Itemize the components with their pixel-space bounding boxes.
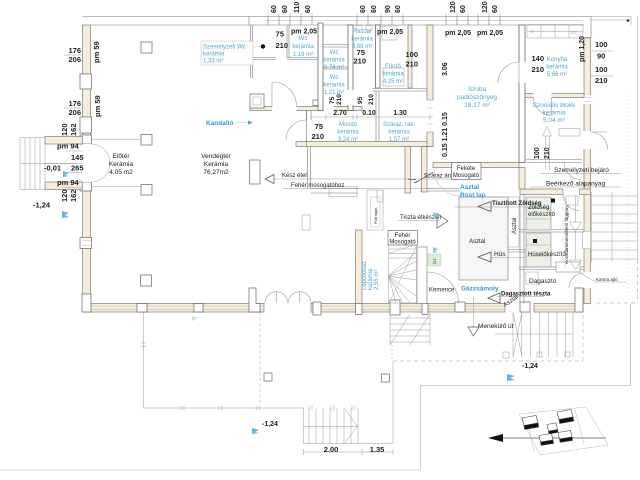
svg-text:210: 210 [405, 60, 418, 69]
konyha dims [531, 54, 544, 74]
kamra ajto [594, 281, 626, 283]
svg-text:előkészítő: előkészítő [528, 212, 556, 218]
svg-text:60: 60 [360, 5, 367, 13]
wc stack left wall [318, 23, 323, 111]
NE corner lines [584, 17, 591, 39]
corridor west wall [519, 168, 525, 190]
entrance outside wing wall top [45, 137, 83, 145]
svg-text:Dagasztott tészta: Dagasztott tészta [501, 292, 551, 298]
svg-text:75: 75 [315, 122, 323, 131]
right wall window gap 3 [584, 231, 592, 249]
hall door arc [286, 120, 306, 140]
big table [459, 197, 508, 280]
svg-text:Kész étel: Kész étel [282, 173, 307, 179]
vestibule left wall mid [251, 50, 253, 78]
svg-text:Vendégtér: Vendégtér [201, 153, 231, 160]
svg-text:Kerámia: Kerámia [109, 161, 134, 168]
left wall window 1 [80, 74, 92, 89]
svg-text:Előtér: Előtér [113, 153, 131, 160]
stairwell right wall [417, 247, 427, 304]
svg-text:1,21 m²: 1,21 m² [324, 90, 344, 96]
bottom wall door opening dagaszto [505, 303, 534, 313]
colonnade pillar top [141, 42, 152, 53]
svg-text:Beérkező alapanyag: Beérkező alapanyag [546, 181, 606, 188]
bottom wall col 4 [313, 302, 321, 315]
svg-text:-1,24: -1,24 [522, 363, 538, 370]
svg-text:100: 100 [595, 40, 608, 49]
svg-text:60: 60 [371, 5, 378, 13]
door gap in hall wall [306, 120, 312, 140]
svg-text:Asztal: Asztal [512, 218, 518, 234]
left wall band [83, 25, 91, 144]
svg-text:210: 210 [353, 57, 366, 66]
svg-text:Kemence: Kemence [429, 288, 455, 294]
dagaszto small box [526, 272, 538, 284]
svg-text:Személyzeti bejáró: Személyzeti bejáró [554, 167, 609, 174]
svg-text:176: 176 [68, 46, 81, 55]
pm 2.05 labels [291, 29, 503, 38]
svg-text:Dagasztó: Dagasztó [529, 278, 557, 285]
svg-text:5,66 m²: 5,66 m² [547, 72, 567, 78]
svg-text:3,24 m²: 3,24 m² [338, 137, 358, 143]
svg-text:Gázzsámoly: Gázzsámoly [461, 286, 499, 293]
mosdo szaraz divider [376, 91, 379, 142]
vestibule bottom wall [250, 107, 362, 111]
3d sketch blocks [522, 410, 574, 446]
room label wc 1.19 [292, 36, 314, 58]
room label wc lower [323, 75, 345, 96]
bathroom bottom dim line [311, 114, 433, 120]
svg-text:pm 1,20: pm 1,20 [579, 36, 586, 62]
corridor small box [566, 196, 578, 205]
pass-through box [250, 160, 261, 184]
svg-text:1,57 m²: 1,57 m² [389, 137, 409, 143]
szocialis bottom thin wall [526, 160, 582, 163]
bottom wall col 9 [520, 302, 530, 312]
konyha bottom wall [525, 94, 584, 98]
svg-text:kerámia: kerámia [323, 83, 345, 89]
kitchen counter top [329, 187, 383, 203]
left wall window 2 [80, 117, 92, 133]
terrace right edge [392, 361, 394, 444]
konyha door gap and arc [534, 93, 552, 98]
svg-text:95: 95 [357, 96, 364, 104]
svg-text:kerámia: kerámia [388, 130, 410, 136]
bottom wall col 2 [137, 304, 147, 313]
svg-text:90: 90 [597, 52, 605, 61]
piszoar dims [353, 48, 418, 69]
svg-text:60: 60 [395, 5, 402, 13]
left wall window 3 [80, 238, 92, 249]
svg-text:100: 100 [405, 50, 418, 59]
right wall staff door opening [584, 131, 592, 149]
zoldseg equipment [526, 197, 551, 230]
feher mosogatohoz arrow [283, 188, 435, 190]
kitchen wall below szaraz [405, 147, 411, 194]
wc door gap in bottom wall [321, 106, 334, 111]
szocialis bench [559, 129, 580, 137]
3d sketch outline [519, 407, 608, 455]
terrace dashed south edge [393, 360, 583, 362]
room label piszoar [351, 29, 373, 50]
entrance outside wing wall bottom [45, 182, 83, 190]
left dims set 1 [68, 41, 102, 117]
szoba left wall niche [427, 100, 434, 132]
room label fürdő [382, 64, 404, 85]
beerkezo alapanyag [530, 186, 621, 188]
svg-text:1.35: 1.35 [370, 445, 385, 454]
svg-text:kerámia: kerámia [351, 37, 373, 43]
bottom wall band [83, 304, 584, 313]
svg-text:kerámia: kerámia [546, 65, 568, 71]
svg-text:Száraz árú: Száraz árú [424, 174, 453, 180]
bottom wall L column [249, 288, 260, 312]
svg-text:Mosogató: Mosogató [453, 173, 480, 179]
svg-text:Személyzeti Wc: Személyzeti Wc [203, 45, 246, 51]
svg-text:210: 210 [275, 41, 288, 50]
wc door dims [275, 30, 288, 51]
svg-text:Tiszta étkészlet: Tiszta étkészlet [400, 215, 441, 221]
svg-text:Wc: Wc [330, 50, 339, 56]
entrance vestibule glass walls [91, 140, 141, 187]
site boundary right solid [637, 16, 639, 260]
svg-text:pm 59: pm 59 [93, 95, 102, 117]
terrace dim line [304, 449, 394, 455]
bathroom mid horizontal wall [372, 89, 433, 92]
terrace stair block outline [304, 408, 394, 444]
room label wc074 [323, 50, 345, 71]
feher mosogato box [388, 231, 418, 246]
room label konyha [546, 57, 568, 78]
kitchen small box [302, 215, 310, 230]
svg-text:-0,01: -0,01 [44, 164, 61, 173]
svg-text:Mosdó: Mosdó [339, 122, 358, 128]
hall east wall lower [308, 147, 311, 189]
svg-text:210: 210 [544, 147, 551, 159]
top wall mullion ticks [249, 17, 500, 26]
site boundary bottom line [0, 469, 421, 471]
north arrow line [490, 437, 606, 439]
svg-text:padlószőnyeg: padlószőnyeg [457, 94, 497, 101]
lower right vertical wall [520, 195, 524, 304]
dagaszto divider [519, 267, 584, 270]
piszoar urinals [356, 26, 362, 31]
svg-text:kerámia: kerámia [292, 44, 314, 50]
mosdo door dims [311, 122, 324, 141]
fürdő tub [383, 68, 404, 86]
entrance exterior steps [20, 138, 74, 190]
svg-text:Kandalló: Kandalló [206, 120, 233, 127]
bottom wall col 7 [422, 304, 428, 315]
svg-text:2.00: 2.00 [324, 445, 339, 454]
konyha cabinets [527, 25, 583, 39]
fürdő right wall [408, 25, 412, 88]
room label lepcsohaz rotated [362, 261, 380, 290]
kamra door arc [569, 273, 584, 288]
szemelyzeti bejaro [540, 173, 621, 175]
svg-text:75: 75 [329, 96, 336, 104]
piszoar fürdő divider [376, 25, 381, 88]
wc block bottom wall of szwc [252, 58, 318, 60]
svg-text:162: 162 [69, 189, 78, 202]
svg-text:110: 110 [294, 2, 301, 13]
svg-text:210: 210 [368, 94, 375, 105]
svg-text:76,27m2: 76,27m2 [203, 169, 229, 176]
svg-text:-1,24: -1,24 [33, 201, 51, 210]
bathroom block bottom wall [296, 142, 433, 147]
svg-text:Szoba: Szoba [468, 86, 487, 93]
svg-text:Mosogató: Mosogató [389, 240, 416, 246]
svg-text:ÚJ: ÚJ [431, 259, 437, 265]
bottom wall corner col left [82, 294, 91, 312]
svg-text:1,19 m²: 1,19 m² [293, 52, 313, 58]
hus room divider [519, 230, 584, 233]
vestibule pillar bottom [141, 185, 152, 196]
wc stack divider 1 [323, 45, 350, 48]
right down arrows [570, 196, 582, 232]
svg-text:pm 94: pm 94 [57, 142, 80, 151]
kandallo box [250, 94, 264, 108]
corridor door arc [564, 195, 580, 211]
svg-text:pm 2,05: pm 2,05 [445, 30, 471, 37]
right wall kamra door opening [584, 272, 592, 288]
svg-text:2,55 m²: 2,55 m² [374, 270, 380, 290]
svg-text:Hús: Hús [494, 251, 506, 258]
svg-text:162: 162 [69, 123, 78, 136]
svg-text:Menekülő út: Menekülő út [478, 323, 514, 330]
svg-text:140: 140 [531, 54, 544, 63]
tiszta etkeszlet [398, 220, 440, 222]
menekulo ut [473, 296, 475, 327]
top rotated dims group 1 [271, 1, 499, 13]
svg-text:265: 265 [71, 164, 84, 173]
svg-text:4,25 m²: 4,25 m² [383, 79, 403, 85]
site boundary right dashed lower [637, 260, 639, 303]
svg-text:pm 94: pm 94 [57, 178, 80, 187]
svg-text:Fürdő: Fürdő [385, 64, 401, 70]
vestibule left wall lower [251, 94, 253, 107]
right wall band [584, 38, 591, 304]
right side dims [595, 40, 608, 85]
terrace dashed east edge [582, 303, 584, 361]
svg-text:Kerámia: Kerámia [204, 161, 229, 168]
svg-text:206: 206 [68, 108, 81, 117]
hus arrow [491, 257, 526, 259]
svg-text:1,33 m²: 1,33 m² [203, 59, 223, 65]
terrace post 1 [264, 373, 272, 381]
entrance dims [33, 123, 84, 209]
svg-text:Szociális blokk: Szociális blokk [533, 102, 576, 109]
svg-text:100: 100 [534, 147, 541, 159]
svg-text:Wc: Wc [330, 75, 339, 81]
terrace left edge [144, 312, 304, 408]
wc stack right wall / piszoar left [348, 25, 353, 111]
label eloter [109, 153, 134, 176]
svg-text:60: 60 [282, 5, 289, 13]
top dim witness ticks [268, 13, 500, 17]
svg-text:5,04 m²: 5,04 m² [543, 117, 566, 124]
svg-text:Konyha: Konyha [547, 57, 568, 63]
dagasztott teszta arrow [497, 296, 544, 298]
svg-text:18,17 m²: 18,17 m² [464, 102, 490, 109]
terrace post 2 [382, 374, 390, 382]
szocialis door rotated dims [534, 147, 551, 159]
cyan splashes [62, 171, 515, 434]
north arrow head [488, 434, 503, 442]
room label szoba [457, 86, 497, 109]
svg-text:60: 60 [305, 5, 312, 13]
corridor bottom wall [520, 189, 591, 195]
svg-text:GT: GT [571, 30, 578, 35]
label vendegter [201, 153, 231, 176]
svg-text:60: 60 [492, 5, 499, 13]
svg-text:kerámia: kerámia [542, 110, 566, 117]
kesz etel arrow [274, 178, 452, 180]
left wall entrance opening [82, 144, 92, 182]
site boundary dashed horizontal at kamra [596, 302, 638, 304]
kemence door arc [427, 272, 459, 304]
vestibule door gap and arc [272, 106, 297, 111]
szoba left wall [427, 25, 433, 147]
right wall window gap 2 [584, 189, 592, 195]
svg-text:75: 75 [276, 30, 284, 39]
svg-text:kerámia: kerámia [323, 58, 345, 64]
rotated door dims under wc block [329, 94, 375, 105]
svg-text:0,74 m²: 0,74 m² [324, 65, 344, 71]
room label szocialis [533, 102, 576, 124]
svg-text:Wc: Wc [299, 36, 308, 42]
szoba left wall lower segment [422, 147, 428, 193]
svg-text:pm 2,05: pm 2,05 [291, 29, 317, 36]
left wall column above entrance [80, 135, 92, 144]
svg-text:Pult lapja: Pult lapja [373, 207, 378, 224]
tisztitott zoldseg arrow [455, 206, 536, 208]
green revision box [428, 254, 441, 266]
fekete mosogato box [452, 163, 482, 180]
svg-text:2.70: 2.70 [333, 110, 347, 117]
kitchen north wall [311, 189, 459, 194]
asztal strip [508, 197, 519, 247]
svg-text:kerámia: kerámia [203, 52, 225, 58]
svg-text:90: 90 [385, 5, 392, 13]
svg-text:3,68 m²: 3,68 m² [352, 44, 372, 50]
svg-text:kerámia: kerámia [337, 130, 359, 136]
svg-text:100: 100 [595, 65, 608, 74]
dagaszto equipment [556, 262, 580, 272]
svg-text:120: 120 [450, 1, 457, 13]
svg-text:176: 176 [68, 99, 81, 108]
bottom wall double door opening [264, 303, 311, 313]
NE fence strip [591, 17, 631, 26]
svg-text:-1,24: -1,24 [262, 421, 278, 428]
szocialis up arrow [543, 127, 552, 171]
szoba konyha door arc [519, 62, 526, 83]
svg-text:Fehér mosogatóhoz: Fehér mosogatóhoz [291, 183, 344, 189]
stairwell winder stair [389, 244, 417, 303]
svg-text:0.15 1.21 0.15: 0.15 1.21 0.15 [442, 112, 449, 157]
vestibule pillar top [141, 135, 152, 146]
room label mosdo [337, 122, 359, 143]
bottom wall corner right [575, 288, 583, 312]
wc stack divider 2 [323, 67, 350, 69]
svg-text:pm 2,05: pm 2,05 [477, 30, 503, 37]
stairwell left wall [356, 230, 363, 304]
szoba right wall [519, 25, 525, 163]
bottom wall col 8 [455, 302, 465, 312]
svg-text:Asztal: Asztal [460, 184, 479, 191]
szoba bottom wall [433, 163, 519, 168]
svg-text:120: 120 [482, 1, 489, 13]
svg-text:Piszoar: Piszoar [352, 29, 372, 35]
SE exterior stair treads below dagaszto [495, 312, 573, 357]
bottom wall col 6 [390, 300, 400, 315]
svg-text:Rost lap: Rost lap [460, 192, 486, 199]
svg-text:120: 120 [60, 123, 69, 136]
top wall glazing mid line [265, 20, 583, 22]
room label szemelyzeti wc boxed [201, 41, 265, 65]
wall between szwc and wc119 [287, 25, 289, 58]
terrace stair treads [304, 408, 359, 444]
right wall window gap 1 [584, 95, 592, 104]
escape stair below stairwell [390, 312, 430, 358]
hus equipment [526, 233, 551, 267]
room label szaraz rak [383, 122, 415, 143]
terrace centre dashed line [259, 312, 261, 405]
bottom wall col 3 [194, 304, 203, 313]
svg-text:Fekete: Fekete [457, 166, 476, 172]
entrance door leaf arcs [91, 144, 110, 182]
left wall column below entrance [80, 182, 92, 191]
svg-text:Száraz, rak.: Száraz, rak. [383, 122, 415, 128]
svg-text:Fehér: Fehér [395, 233, 411, 239]
svg-text:kerámia: kerámia [382, 72, 404, 78]
colonnade pillar bottom [141, 275, 152, 286]
svg-text:Húselőkészítő: Húselőkészítő [528, 252, 566, 258]
svg-text:pm 2,05: pm 2,05 [377, 29, 403, 36]
SE stair posts [503, 352, 509, 358]
svg-text:4,05 m2: 4,05 m2 [109, 169, 133, 176]
bottom wall col 5 [356, 304, 363, 315]
szocialis door arc [564, 163, 581, 180]
kitchen north door arc [434, 169, 461, 196]
svg-text:Kamra ajtó: Kamra ajtó [596, 277, 618, 282]
svg-text:Asztal: Asztal [469, 239, 485, 245]
svg-text:210: 210 [595, 76, 608, 85]
svg-text:60: 60 [271, 5, 278, 13]
svg-text:Zöldség: Zöldség [528, 205, 549, 211]
svg-text:206: 206 [68, 55, 81, 64]
site boundary right dotted inner [627, 95, 629, 300]
NE exterior stair [592, 192, 638, 262]
staff door arc [591, 132, 608, 149]
top wall inner line [91, 24, 585, 26]
bottom wall inner glazing line [91, 306, 583, 310]
svg-text:H: H [531, 29, 534, 34]
svg-text:145: 145 [71, 153, 84, 162]
top wall outer line [83, 16, 592, 18]
svg-text:210: 210 [531, 65, 544, 74]
svg-text:0.10: 0.10 [362, 110, 376, 117]
svg-text:120: 120 [60, 189, 69, 202]
fürdő shower [382, 26, 397, 40]
svg-text:3.06: 3.06 [442, 62, 449, 76]
site boundary SE corner [421, 304, 631, 470]
svg-text:60: 60 [460, 5, 467, 13]
vestibule left wall upper [251, 25, 253, 47]
svg-text:210: 210 [311, 132, 324, 141]
corridor wall opening [563, 189, 580, 196]
svg-text:1.30: 1.30 [393, 110, 407, 117]
